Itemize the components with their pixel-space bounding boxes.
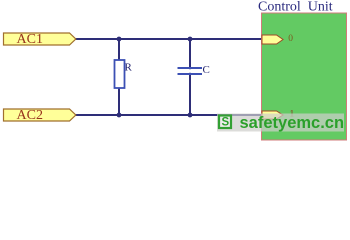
svg-text:AC2: AC2 <box>17 108 43 123</box>
wire bottom net AC2 <box>75 114 262 116</box>
svg-text:AC1: AC1 <box>17 32 43 47</box>
wire capacitor branch <box>189 39 191 115</box>
resistor R <box>115 60 133 88</box>
capacitor C <box>178 64 210 76</box>
svg-text:0: 0 <box>288 34 293 44</box>
port AC2 <box>4 108 76 123</box>
svg-text:Control Unit: Control Unit <box>258 0 333 15</box>
node junction bottom-R <box>117 113 122 118</box>
node junction top-R <box>117 37 122 42</box>
port AC1 <box>4 32 76 47</box>
wire top net AC1 <box>75 38 262 40</box>
svg-text:S: S <box>222 117 230 129</box>
svg-text:safetyemc.cn: safetyemc.cn <box>240 114 345 132</box>
watermark safetyemc.cn <box>217 114 344 133</box>
op-amp U1 Control Unit box <box>258 0 347 140</box>
svg-text:R: R <box>125 62 133 74</box>
node junction top-C <box>188 37 193 42</box>
svg-text:C: C <box>203 64 210 76</box>
pin 0 <box>262 34 293 44</box>
pin 1 <box>262 110 295 120</box>
node junction bottom-C <box>188 113 193 118</box>
wire resistor branch <box>118 39 120 115</box>
